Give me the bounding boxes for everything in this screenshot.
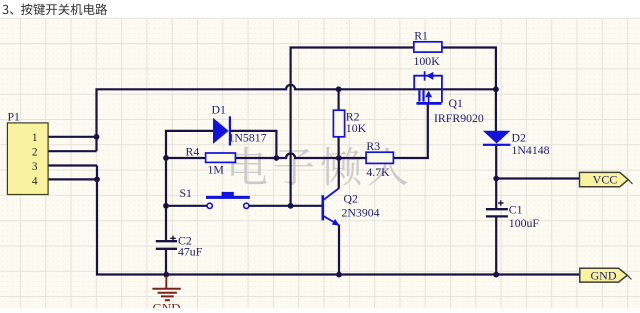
junction S1 left / C2 [163,203,169,209]
svg-text:4: 4 [32,175,38,187]
power flag VCC [580,172,633,186]
wire: S1 left [166,205,207,207]
transistor Q2 2N3904 [323,188,380,226]
wire: R3 right to Q1 drain [393,104,427,158]
svg-text:47uF: 47uF [178,245,203,259]
svg-text:3: 3 [32,161,38,173]
resistor R1 [414,28,442,68]
wire: R1 row and S1 vertical [291,48,414,206]
pushbutton S1 [180,186,250,209]
MOSFET Q1 IRFR9020 [414,71,484,125]
wire: R1 right to D2/C1 column [442,48,496,132]
junction VCC node [493,176,499,182]
svg-text:100K: 100K [414,54,441,68]
wire: ground bus from P1 pins 3-4 [97,166,580,275]
wire: top net from P1 pins 1-2 to Q1 gate row [97,85,496,151]
diode D2 1N4148 [483,131,550,158]
wire: D1 anode branch [166,131,214,241]
wire: C1 bottom to ground bus [495,217,497,275]
junction Q2 emitter ground [336,272,342,278]
title text 3、按键开关机电路 [3,4,108,16]
junction P1 pin1 [94,134,100,140]
capacitor C1 100uF [486,200,539,230]
svg-text:R1: R1 [414,28,428,42]
svg-text:D1: D1 [212,103,227,117]
connector P1 [7,109,48,194]
svg-text:2N3904: 2N3904 [342,206,380,220]
resistor R4 [186,145,236,177]
wire: P1 pin1 [48,136,96,138]
svg-text:R3: R3 [366,139,380,153]
svg-text:Q2: Q2 [344,191,359,205]
svg-text:2: 2 [32,146,38,158]
junction R4 left [163,155,169,161]
capacitor C2 47uF [156,233,203,258]
svg-text:GND: GND [591,268,617,282]
svg-text:IRFR9020: IRFR9020 [434,111,484,125]
ground symbol [152,276,180,313]
svg-text:GND: GND [153,300,181,308]
junction C1 ground [493,272,499,278]
junction R1 right / gate row [493,86,499,92]
diode D1 1N5817 [212,103,267,146]
wire: R2 bottom to Q2 collector [338,137,340,188]
svg-text:1M: 1M [208,163,225,177]
wire: P1 pin3 [48,164,97,166]
wire: C2 bottom to ground bus [165,249,167,275]
svg-text:VCC: VCC [593,172,618,186]
svg-text:10K: 10K [346,121,367,135]
junction D1 cathode R4 row [274,155,280,161]
junction C2 ground [163,272,169,278]
wire: R2 top [338,89,340,110]
wire: P1 pin4 [48,178,97,180]
svg-text:1: 1 [32,132,38,144]
svg-text:100uF: 100uF [509,216,540,230]
svg-text:1N5817: 1N5817 [229,130,267,144]
junction R2 bottom / Q2 collector [336,155,342,161]
svg-text:C1: C1 [509,202,523,216]
svg-text:S1: S1 [180,186,193,200]
wire: D1 cathode down to R4 row [231,131,276,158]
junction R2 top [336,86,342,92]
wire: R4 row to R2 bottom and R3 [235,154,366,159]
power flag GND [580,268,632,282]
junction S1 right / Q2 base [288,203,294,209]
svg-text:R4: R4 [186,145,200,159]
svg-text:Q1: Q1 [449,96,464,110]
wire: D2 cathode to VCC and C1 [495,145,497,209]
wire: R4 left [166,157,206,159]
svg-text:P1: P1 [8,109,21,123]
svg-text:4.7K: 4.7K [366,165,390,179]
resistor R3 [366,139,393,179]
watermark 电子懒人 [231,147,407,186]
resistor R2 [333,110,366,137]
wire: S1 right to Q2 base [249,205,322,207]
wire: VCC stub [496,177,579,179]
junction P1 pin4 [94,177,100,183]
wire: P1 pin2 [48,150,96,152]
svg-text:1N4148: 1N4148 [512,143,550,157]
wire: Q2 emitter to ground bus [338,225,340,275]
